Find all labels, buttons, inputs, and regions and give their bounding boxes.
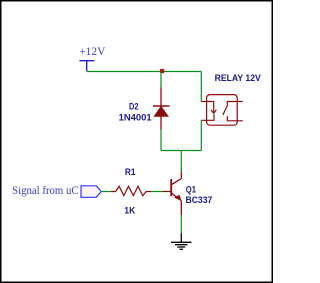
relay coil arrow	[211, 110, 216, 114]
wire diode top	[160, 72, 162, 88]
terminal Signal from uC	[81, 186, 101, 198]
wire emitter to ground	[180, 215, 182, 234]
label Q1	[186, 185, 197, 196]
svg-text:R1: R1	[125, 167, 136, 178]
relay contact common pin	[227, 102, 243, 106]
wire resistor to base	[151, 191, 162, 193]
label 1N4001	[119, 112, 153, 123]
label D2	[129, 101, 139, 112]
relay contact arm	[223, 106, 227, 116]
wire terminal to resistor	[102, 191, 111, 193]
relay coil pin 2	[201, 115, 214, 121]
svg-text:1K: 1K	[124, 206, 135, 217]
svg-text:D2: D2	[129, 101, 139, 112]
svg-text:RELAY 12V: RELAY 12V	[215, 73, 262, 84]
relay RL1 body	[207, 95, 238, 126]
wire diode bottom	[160, 130, 162, 151]
relay coil pin 1	[201, 102, 213, 113]
label 1K	[124, 206, 135, 217]
ground	[171, 234, 192, 250]
resistor R1	[111, 186, 152, 196]
wire relay drop	[200, 72, 202, 102]
label BC337	[186, 195, 213, 206]
label Signal from uC	[12, 183, 79, 197]
wire collector drop	[180, 151, 182, 172]
svg-text:Signal from uC: Signal from uC	[12, 183, 79, 197]
relay contact NO pin	[227, 116, 243, 121]
transistor Q1	[162, 172, 182, 216]
power +12V label	[79, 44, 106, 58]
svg-text:1N4001: 1N4001	[119, 112, 153, 123]
junction node	[160, 69, 164, 73]
svg-text:BC337: BC337	[186, 195, 213, 206]
wire relay coil bottom	[200, 120, 202, 150]
wire top rail	[87, 71, 202, 73]
svg-text:+12V: +12V	[79, 44, 106, 58]
wire lower rail	[161, 150, 201, 152]
power symbol +12V	[79, 61, 94, 71]
label RELAY 12V	[215, 73, 262, 84]
diode D2	[153, 88, 170, 130]
label R1	[125, 167, 136, 178]
